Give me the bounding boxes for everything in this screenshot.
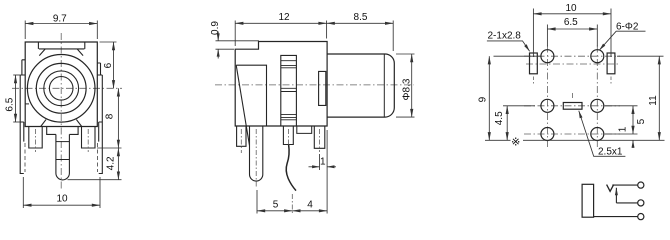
contact stack V2 xyxy=(281,55,297,126)
svg-text:4: 4 xyxy=(307,200,313,211)
svg-text:8: 8 xyxy=(104,113,115,119)
dim 1 V2 xyxy=(309,154,337,170)
centerline horizontal V2 xyxy=(215,84,414,86)
dim 8.5 xyxy=(327,21,394,52)
center pin boss step1 xyxy=(47,127,78,135)
switch lead xyxy=(616,202,637,204)
dim 10 V1 xyxy=(23,177,100,208)
svg-text:6.5: 6.5 xyxy=(564,17,578,28)
centerline vertical V1 xyxy=(60,33,62,191)
tip lead xyxy=(612,184,638,186)
row centerline top xyxy=(524,55,620,57)
mid slot centerline xyxy=(572,93,574,99)
body outline V1 xyxy=(25,42,97,127)
svg-text:4.2: 4.2 xyxy=(105,156,116,170)
bottom flare right xyxy=(76,120,81,127)
dim 10 V3 xyxy=(533,9,611,58)
hole C1 xyxy=(541,128,554,141)
dim phi8.3 xyxy=(396,54,415,117)
right upper tab V1 xyxy=(97,63,100,75)
datum line with reference mark xyxy=(485,139,665,141)
dim 12 xyxy=(235,21,326,47)
svg-text:6.5: 6.5 xyxy=(4,97,15,111)
wire pin centerline xyxy=(287,129,289,147)
dim 6.5 xyxy=(13,75,20,122)
stack division lines xyxy=(281,61,297,120)
dim 6.5 V3 xyxy=(547,25,597,47)
svg-text:※: ※ xyxy=(511,136,520,148)
hole A2 xyxy=(591,50,604,63)
dim 8 xyxy=(97,88,122,148)
center pin joint line 2 xyxy=(56,159,70,161)
barrel end chord xyxy=(383,54,385,116)
column centerline left xyxy=(546,46,548,148)
column centerline right xyxy=(596,46,598,148)
barrel V2 xyxy=(327,54,394,117)
svg-text:12: 12 xyxy=(278,12,290,23)
svg-text:0.9: 0.9 xyxy=(210,21,221,35)
right pin centerline xyxy=(87,129,89,152)
left leg hidden edge dashed xyxy=(24,143,26,172)
body outline V2 xyxy=(235,42,327,127)
svg-text:10: 10 xyxy=(56,194,68,205)
right leg hidden edge dashed xyxy=(97,143,99,172)
spring wire xyxy=(286,145,296,191)
right pin V1 xyxy=(82,127,96,149)
hole C2 xyxy=(591,128,604,141)
left pin V1 xyxy=(29,127,42,149)
slot centerline stubs xyxy=(533,77,611,86)
bottom flare left xyxy=(41,120,46,127)
dim 9.7 xyxy=(25,21,97,40)
switch arm xyxy=(615,188,617,203)
svg-text:2-1x2.8: 2-1x2.8 xyxy=(488,31,522,42)
svg-text:Φ8.3: Φ8.3 xyxy=(402,78,413,100)
front leg V2 xyxy=(237,126,246,146)
row centerline bottom xyxy=(524,133,620,135)
svg-text:5: 5 xyxy=(636,118,647,124)
left flange leg V1 xyxy=(20,75,25,174)
slot left xyxy=(530,53,538,74)
row centerline middle xyxy=(524,105,620,107)
rear pin centerline xyxy=(319,129,321,152)
dim 4.2 xyxy=(68,148,122,180)
dim 4.5 xyxy=(503,106,535,141)
dim 5 and 4 V2 xyxy=(257,130,327,214)
notch flare right xyxy=(77,49,83,56)
svg-text:5: 5 xyxy=(273,200,279,211)
circle r12 center contact xyxy=(49,77,73,101)
svg-text:6: 6 xyxy=(103,62,114,68)
left upper tab V1 xyxy=(22,60,25,75)
ground lead xyxy=(594,216,638,218)
hole B1 xyxy=(541,99,554,112)
circle r17 xyxy=(44,71,79,106)
svg-text:8.5: 8.5 xyxy=(354,12,368,23)
middle slot 2.5x1 xyxy=(563,103,582,110)
svg-text:1: 1 xyxy=(320,156,326,167)
dim 6 xyxy=(100,42,117,88)
svg-text:9.7: 9.7 xyxy=(53,14,67,25)
hole A1 xyxy=(541,50,554,63)
terminal 1 xyxy=(638,182,644,188)
slot right xyxy=(607,53,615,74)
left pin centerline xyxy=(35,129,37,152)
bottom step notch xyxy=(297,126,312,133)
dim 5 V3 xyxy=(605,106,638,148)
collar block xyxy=(319,71,326,105)
dim 9 xyxy=(489,56,541,140)
center pin V2 (U shape) xyxy=(250,126,263,181)
wedge slanted edge xyxy=(236,65,249,145)
center pin shaft V1 xyxy=(56,134,70,180)
jack body bar xyxy=(582,184,594,217)
svg-text:11: 11 xyxy=(648,95,659,106)
dim 11 xyxy=(617,56,664,140)
tip contact V xyxy=(607,185,614,192)
notch flare left xyxy=(39,49,45,56)
svg-text:4.5: 4.5 xyxy=(494,111,505,125)
rear pin V2 xyxy=(314,126,325,148)
svg-text:6-Φ2: 6-Φ2 xyxy=(616,21,639,32)
center pin centerline V2 xyxy=(255,129,257,188)
left inner tick V1 xyxy=(25,103,29,105)
inner shelf line xyxy=(236,65,266,126)
wire pin V2 xyxy=(283,126,293,145)
center pin joint line 1 xyxy=(56,141,70,143)
hole B2 xyxy=(591,99,604,112)
wire centerline ext xyxy=(291,194,293,214)
row centerline slots xyxy=(526,63,618,65)
dim 0.9 xyxy=(216,32,260,59)
terminal 2 xyxy=(638,200,644,206)
front leg centerline xyxy=(240,129,242,153)
outer barrel circle xyxy=(27,55,95,123)
centerline horizontal V1 xyxy=(12,87,122,89)
right flange leg V1 xyxy=(97,75,102,174)
terminal 3 xyxy=(638,214,644,220)
svg-text:10: 10 xyxy=(565,3,577,14)
top notch V1 xyxy=(38,42,84,49)
circle r25 xyxy=(36,63,86,113)
svg-text:1: 1 xyxy=(617,126,628,132)
svg-text:9: 9 xyxy=(477,96,488,102)
